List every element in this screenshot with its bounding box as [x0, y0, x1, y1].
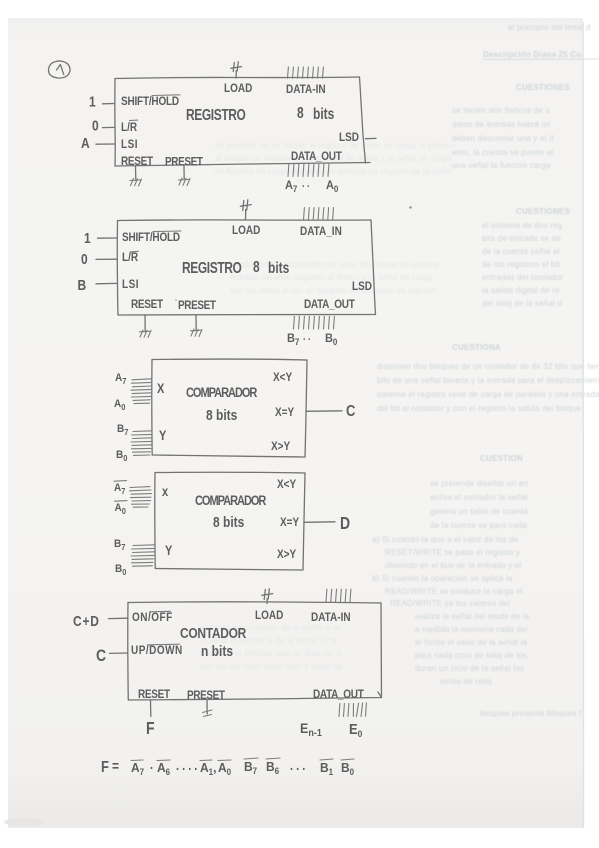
svg-text:bits de entrada se de: bits de entrada se de — [482, 234, 561, 243]
svg-text:disponen dos bloques de un con: disponen dos bloques de un contador de d… — [377, 362, 599, 371]
svg-text:X: X — [157, 381, 165, 396]
svg-text:.: . — [150, 757, 153, 772]
svg-text:A0: A0 — [326, 180, 339, 194]
svg-text:entrada del dato segundo el fl: entrada del dato segundo el flanco y la … — [230, 273, 433, 282]
svg-text:PRESET: PRESET — [187, 689, 225, 702]
svg-text:8 bits: 8 bits — [213, 514, 244, 531]
svg-text:bits: bits — [313, 104, 335, 122]
svg-text:n bits: n bits — [201, 643, 233, 659]
svg-text:DATA_OUT: DATA_OUT — [313, 688, 364, 701]
svg-text:PRESET: PRESET — [178, 299, 216, 312]
svg-text:LSD: LSD — [339, 131, 359, 144]
svg-text:READ/WRITE se los valores: READ/WRITE se los valores del — [390, 599, 510, 608]
svg-text:0: 0 — [92, 117, 99, 133]
svg-text:D: D — [340, 515, 350, 534]
svg-text:el fondo el valor de la señal: el fondo el valor de la señal la — [415, 638, 528, 647]
svg-text:. .: . . — [302, 178, 310, 190]
svg-text:COMPARADOR: COMPARADOR — [195, 493, 266, 508]
svg-text:obtenido en el bus de la entra: obtenido en el bus de la entrada y el — [385, 561, 521, 570]
svg-text:duran un ciclo de la señal los: duran un ciclo de la señal los — [415, 664, 524, 673]
svg-text:de la cuenta se para cada: de la cuenta se para cada — [430, 521, 527, 530]
svg-text:. . .: . . . — [290, 758, 305, 773]
svg-text:DATA-IN: DATA-IN — [286, 83, 326, 96]
svg-text:C: C — [96, 647, 106, 665]
svg-text:LOAD: LOAD — [232, 224, 260, 237]
svg-text:se pretende diseñar un arr: se pretende diseñar un arr — [430, 479, 529, 488]
svg-text:L/R: L/R — [122, 251, 138, 264]
svg-text:DATA_IN: DATA_IN — [300, 225, 342, 238]
svg-text:Y: Y — [165, 543, 172, 558]
svg-text:CUESTIONES: CUESTIONES — [516, 207, 570, 216]
svg-text:B0: B0 — [116, 449, 128, 463]
svg-text:A0: A0 — [218, 760, 231, 776]
svg-text:X<Y: X<Y — [277, 478, 297, 491]
svg-text:A0: A0 — [115, 502, 127, 516]
svg-text:con los del valor entre dato y: con los del valor entre dato y señal de — [200, 662, 343, 671]
svg-text:C+D: C+D — [73, 613, 100, 629]
svg-text:LSD: LSD — [352, 280, 372, 293]
svg-text:. . . .: . . . . — [176, 758, 197, 773]
svg-text:deben descontar una y el d: deben descontar una y el d — [452, 134, 554, 143]
svg-text:X=Y: X=Y — [275, 406, 295, 419]
svg-text:bloques presenta bloques f: bloques presenta bloques f — [480, 709, 582, 718]
svg-text:al principio del tema d: al principio del tema d — [508, 23, 590, 32]
svg-text:X<Y: X<Y — [273, 371, 293, 384]
svg-text:8: 8 — [253, 257, 260, 275]
svg-text:CUESTIONES: CUESTIONES — [516, 83, 570, 92]
svg-text:de los registros el bit: de los registros el bit — [482, 260, 561, 269]
svg-text:CONTADOR: CONTADOR — [180, 625, 246, 642]
svg-text:X>Y: X>Y — [271, 440, 291, 453]
svg-text:entradas del contador: entradas del contador — [482, 273, 564, 282]
svg-text:B0: B0 — [115, 563, 127, 577]
svg-text:COMPARADOR: COMPARADOR — [186, 385, 257, 400]
svg-text:Descripción Diana 25 Cu: Descripción Diana 25 Cu — [483, 50, 581, 59]
svg-text:REGISTRO: REGISTRO — [186, 105, 246, 123]
svg-text:REGISTRO: REGISTRO — [182, 258, 242, 276]
svg-text:C: C — [346, 403, 355, 420]
svg-text:E0: E0 — [349, 721, 362, 738]
svg-text:LOAD: LOAD — [224, 82, 252, 95]
svg-text:B7: B7 — [114, 538, 126, 552]
svg-text:sistema el registro serie de c: sistema el registro serie de carga de pa… — [377, 390, 599, 399]
svg-text:B6: B6 — [266, 759, 279, 775]
svg-text:A1,: A1, — [200, 760, 216, 776]
svg-text:B: B — [78, 277, 87, 293]
svg-text:UP/DOWN: UP/DOWN — [131, 644, 183, 657]
svg-text:F: F — [101, 759, 109, 776]
svg-text:X>Y: X>Y — [277, 548, 297, 561]
svg-text:SHIFT/HOLD: SHIFT/HOLD — [122, 231, 180, 244]
svg-text:bits de una señal binaria y la: bits de una señal binaria y la entrada p… — [377, 376, 599, 385]
svg-text:. .: . . — [303, 331, 311, 343]
svg-text:B0: B0 — [325, 333, 338, 347]
svg-text:A: A — [81, 135, 90, 151]
svg-text:eros, la cuenta se puede al: eros, la cuenta se puede al — [452, 148, 553, 157]
svg-text:x: x — [162, 484, 168, 499]
svg-text:X=Y: X=Y — [280, 516, 300, 529]
svg-text:una señal la función carga: una señal la función carga — [452, 161, 551, 170]
svg-text:A7: A7 — [115, 372, 127, 386]
svg-text:DATA_OUT: DATA_OUT — [304, 298, 355, 311]
svg-text:En-1: En-1 — [300, 720, 322, 738]
svg-text:del reloj de la señal d: del reloj de la señal d — [482, 299, 562, 308]
svg-text:A7: A7 — [131, 760, 144, 776]
svg-text:B1: B1 — [320, 760, 333, 776]
svg-text:en paralelo de un listado el r: en paralelo de un listado el registro de… — [215, 141, 457, 150]
svg-text:RESET/WRITE se pasa el registr: RESET/WRITE se pasa el registro y — [385, 548, 520, 557]
svg-text:con los datos al ser en parale: con los datos al ser en paralelo de un m… — [230, 286, 437, 295]
svg-text:a) Si cuando la que a el valo: a) Si cuando la que a el valor de los de — [372, 535, 519, 544]
svg-text:datos de entrada habrá un: datos de entrada habrá un — [452, 120, 551, 129]
svg-text:activa el contador la señal: activa el contador la señal — [430, 493, 528, 502]
svg-text:la salida digital de re: la salida digital de re — [482, 286, 560, 295]
svg-text:F: F — [146, 720, 155, 739]
svg-text:0: 0 — [81, 251, 88, 267]
svg-text:L/R: L/R — [121, 121, 137, 134]
svg-text:B0: B0 — [341, 760, 354, 776]
svg-text:RESET: RESET — [121, 155, 153, 168]
svg-text:del bit al contador y con el r: del bit al contador y con el registro la… — [377, 404, 582, 413]
svg-text:LSI: LSI — [121, 138, 138, 151]
svg-text:RESET: RESET — [138, 688, 170, 701]
svg-text:de la cuenta señal el: de la cuenta señal el — [482, 247, 560, 256]
svg-text:genera un tablo de cuenta: genera un tablo de cuenta — [430, 507, 528, 516]
svg-text:=: = — [112, 758, 119, 774]
svg-text:8: 8 — [297, 103, 304, 121]
svg-text:ON/OFF: ON/OFF — [132, 611, 173, 624]
svg-text:para cada ciclo de reloj de lo: para cada ciclo de reloj de los — [415, 651, 527, 660]
svg-text:1: 1 — [84, 230, 91, 246]
svg-text:RESET: RESET — [131, 298, 163, 311]
svg-text:B7: B7 — [287, 333, 300, 347]
svg-text:A7: A7 — [114, 482, 126, 496]
svg-text:PRESET: PRESET — [165, 156, 203, 169]
svg-text:A6: A6 — [157, 760, 170, 776]
svg-text:el sistema de dos reg: el sistema de dos reg — [482, 221, 562, 230]
svg-text:DATA-IN: DATA-IN — [311, 611, 351, 624]
svg-text:ciclos de reloj.: ciclos de reloj. — [440, 677, 494, 686]
svg-text:CUESTION: CUESTION — [480, 454, 523, 463]
svg-text:B7: B7 — [244, 759, 257, 775]
svg-text:CUESTIONA: CUESTIONA — [452, 343, 501, 352]
svg-text:realiza la señal del modo de l: realiza la señal del modo de la — [415, 612, 530, 621]
svg-text:bits: bits — [268, 258, 290, 276]
svg-text:A7: A7 — [285, 180, 298, 194]
svg-text:se tienen dos flancos de s: se tienen dos flancos de s — [452, 106, 550, 115]
svg-text:LSI: LSI — [122, 278, 139, 291]
svg-text:1: 1 — [89, 93, 96, 109]
svg-text:b) Si cuando la operación se: b) Si cuando la operación se aplica la — [372, 574, 513, 583]
svg-text:A0: A0 — [114, 398, 126, 412]
svg-text:Y: Y — [159, 428, 166, 443]
svg-text:de función de carga del valor: de función de carga del valor de entrada… — [215, 167, 452, 176]
svg-text:B7: B7 — [117, 423, 129, 437]
svg-text:LOAD: LOAD — [255, 609, 283, 622]
svg-text:a medida la memoria cada del: a medida la memoria cada del — [415, 625, 528, 634]
svg-text:un elemento considerado en ser: un elemento considerado en serie del blo… — [230, 260, 439, 269]
svg-text:SHIFT/HOLD: SHIFT/HOLD — [121, 95, 179, 108]
svg-text:8 bits: 8 bits — [206, 407, 237, 424]
svg-text:DATA_OUT: DATA_OUT — [291, 150, 342, 163]
svg-text:READ/WRITE se produce la carga: READ/WRITE se produce la carga el — [385, 587, 523, 596]
